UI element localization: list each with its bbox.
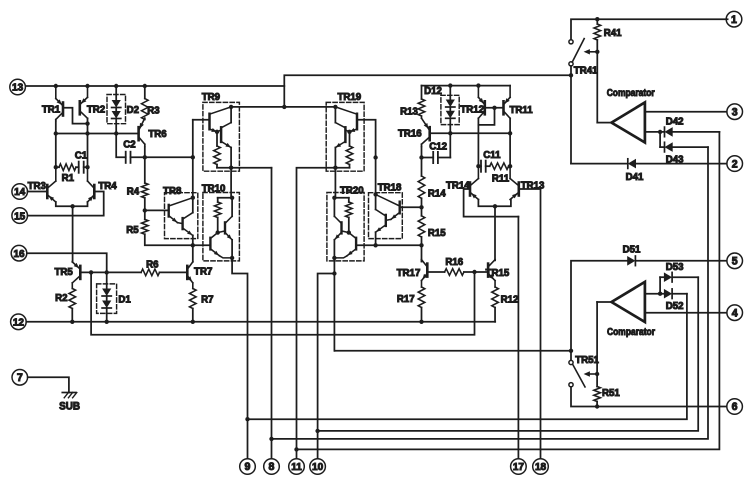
- svg-text:TR11: TR11: [510, 105, 534, 116]
- svg-text:TR12: TR12: [460, 105, 484, 116]
- svg-text:R1: R1: [62, 173, 75, 184]
- svg-text:D12: D12: [424, 86, 442, 97]
- svg-text:9: 9: [245, 461, 251, 473]
- svg-text:R14: R14: [428, 189, 446, 200]
- svg-text:R7: R7: [201, 295, 213, 306]
- svg-text:3: 3: [732, 106, 738, 118]
- svg-text:TR8: TR8: [163, 186, 182, 197]
- svg-text:C12: C12: [429, 141, 447, 152]
- svg-text:D53: D53: [666, 262, 684, 273]
- svg-text:TR41: TR41: [574, 66, 598, 77]
- svg-text:10: 10: [312, 462, 324, 473]
- svg-text:1: 1: [731, 14, 737, 26]
- svg-text:SUB: SUB: [59, 401, 80, 413]
- svg-text:D43: D43: [666, 154, 684, 165]
- svg-text:2: 2: [732, 158, 738, 170]
- svg-text:D2: D2: [127, 105, 139, 116]
- svg-text:R2: R2: [55, 293, 67, 304]
- svg-text:7: 7: [17, 372, 23, 384]
- svg-text:TR15: TR15: [486, 268, 510, 279]
- svg-text:TR16: TR16: [398, 129, 422, 140]
- svg-text:15: 15: [14, 211, 26, 222]
- svg-text:TR5: TR5: [54, 267, 73, 278]
- svg-text:C2: C2: [123, 140, 135, 151]
- svg-text:13: 13: [12, 83, 24, 94]
- svg-text:5: 5: [732, 256, 738, 268]
- svg-text:TR14: TR14: [446, 181, 470, 192]
- svg-text:17: 17: [513, 462, 525, 473]
- svg-text:TR9: TR9: [202, 92, 221, 103]
- svg-text:R41: R41: [604, 28, 622, 39]
- svg-text:TR13: TR13: [521, 181, 545, 192]
- svg-text:D52: D52: [666, 301, 684, 312]
- svg-text:16: 16: [13, 249, 25, 260]
- svg-text:TR20: TR20: [340, 186, 364, 197]
- svg-text:TR4: TR4: [98, 181, 117, 192]
- svg-text:TR2: TR2: [87, 105, 105, 116]
- svg-text:D1: D1: [118, 295, 131, 306]
- svg-text:11: 11: [291, 462, 302, 473]
- svg-text:R5: R5: [126, 225, 139, 236]
- svg-text:R16: R16: [445, 257, 463, 268]
- svg-text:4: 4: [732, 307, 738, 319]
- svg-text:D42: D42: [666, 116, 684, 127]
- svg-text:TR10: TR10: [202, 184, 226, 195]
- svg-text:TR1: TR1: [42, 105, 61, 116]
- svg-text:R4: R4: [127, 186, 140, 197]
- svg-text:R13: R13: [400, 106, 418, 117]
- svg-text:TR17: TR17: [397, 268, 421, 279]
- svg-text:R51: R51: [602, 388, 620, 399]
- svg-text:12: 12: [13, 318, 25, 329]
- svg-text:TR7: TR7: [194, 266, 212, 277]
- svg-text:18: 18: [535, 462, 547, 473]
- svg-text:C11: C11: [483, 150, 501, 161]
- svg-text:R3: R3: [147, 106, 160, 117]
- svg-text:R12: R12: [501, 295, 519, 306]
- svg-text:D41: D41: [626, 172, 644, 183]
- svg-text:Comparator: Comparator: [607, 327, 655, 338]
- svg-text:6: 6: [732, 401, 738, 413]
- svg-text:Comparator: Comparator: [607, 88, 655, 99]
- svg-text:TR18: TR18: [378, 183, 402, 194]
- svg-text:TR19: TR19: [337, 92, 361, 103]
- svg-text:R6: R6: [146, 259, 159, 270]
- svg-text:TR51: TR51: [575, 355, 599, 366]
- svg-text:TR3: TR3: [28, 181, 47, 192]
- svg-text:D51: D51: [623, 244, 641, 255]
- svg-text:R11: R11: [492, 174, 510, 185]
- svg-text:R17: R17: [397, 294, 415, 305]
- svg-text:R15: R15: [428, 228, 446, 239]
- svg-text:C1: C1: [75, 151, 88, 162]
- svg-text:TR6: TR6: [148, 129, 167, 140]
- svg-text:8: 8: [269, 461, 275, 473]
- svg-text:14: 14: [14, 187, 26, 198]
